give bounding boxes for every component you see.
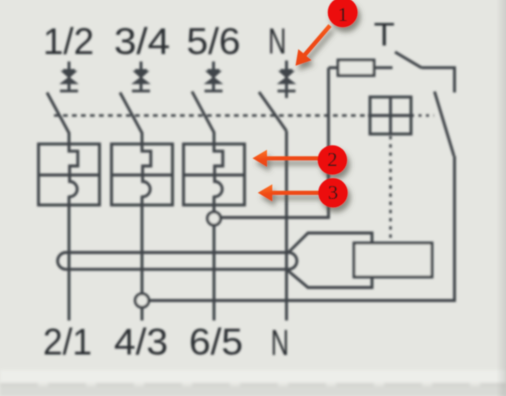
test resistor bbox=[338, 60, 374, 76]
svg-text:6/5: 6/5 bbox=[189, 322, 243, 363]
annotations bbox=[253, 0, 358, 208]
callout circle 1 bbox=[328, 0, 358, 27]
trip contact blade bbox=[435, 92, 455, 157]
CT secondary winding flag bbox=[288, 233, 372, 288]
dotted link coil to relay bbox=[389, 136, 392, 242]
svg-text:4/3: 4/3 bbox=[114, 322, 168, 363]
resistor lead right bbox=[374, 66, 393, 69]
svg-text:5/6: 5/6 bbox=[187, 21, 241, 62]
output relay box bbox=[354, 243, 432, 277]
switch blade pole 1 bbox=[47, 93, 69, 145]
dotted link coil to trip contact bbox=[411, 114, 434, 116]
callout arrow 3 bbox=[258, 184, 322, 201]
terminal 3/4 bbox=[132, 62, 150, 92]
svg-text:3: 3 bbox=[328, 182, 338, 204]
resistor lead left bbox=[329, 66, 339, 69]
trip unit box pole 3 bbox=[184, 144, 245, 205]
terminal N top bbox=[278, 61, 296, 99]
svg-text:1/2: 1/2 bbox=[43, 21, 94, 62]
svg-text:1: 1 bbox=[338, 4, 348, 26]
supply wire right side and bottom bbox=[149, 156, 455, 301]
wire pole 3 below box bbox=[213, 205, 216, 321]
bottom shadow band bbox=[0, 370, 506, 396]
callout circle 3 bbox=[318, 178, 348, 208]
svg-text:N: N bbox=[268, 21, 286, 62]
callout arrow 1 bbox=[296, 24, 332, 66]
svg-text:2/1: 2/1 bbox=[43, 322, 92, 363]
svg-text:3/4: 3/4 bbox=[114, 21, 170, 62]
switch blade pole N bbox=[259, 92, 287, 131]
svg-text:N: N bbox=[271, 322, 289, 363]
test wire from pole3 node bbox=[221, 68, 329, 218]
trip unit box pole 1 bbox=[39, 144, 100, 205]
switch blade pole 2 bbox=[120, 93, 142, 145]
callout arrow 2 bbox=[253, 150, 323, 167]
wire pole 1 below box bbox=[68, 205, 71, 321]
right edge shading bbox=[496, 0, 506, 396]
trip unit box pole 2 bbox=[112, 144, 173, 205]
node on pole 2 bbox=[135, 294, 149, 308]
callout circle 2 bbox=[318, 145, 348, 175]
test button blade bbox=[395, 52, 422, 68]
trip coil square bbox=[368, 97, 413, 134]
svg-text:2: 2 bbox=[327, 149, 337, 171]
CT toroid bbox=[58, 253, 297, 270]
dotted mechanical linkage line bbox=[54, 114, 370, 117]
switch blade pole 3 bbox=[192, 92, 214, 145]
wire to trip contact bbox=[422, 68, 455, 93]
terminal 5/6 bbox=[205, 62, 223, 92]
wire N pole vertical bbox=[285, 131, 288, 321]
wire pole 2 below box bbox=[141, 205, 144, 321]
svg-text:T: T bbox=[374, 17, 395, 53]
node on pole 3 bbox=[207, 212, 220, 225]
terminal 1/2 bbox=[60, 62, 78, 92]
